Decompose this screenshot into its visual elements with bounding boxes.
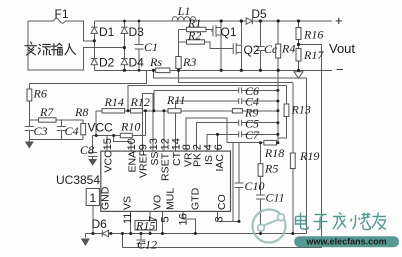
svg-text:R7: R7 bbox=[39, 105, 54, 119]
capacitor C7 plates bbox=[239, 131, 242, 137]
resistor R1 body bbox=[187, 27, 207, 31]
wire: C3 column bbox=[28, 120, 30, 139]
svg-text:16: 16 bbox=[178, 213, 190, 225]
junction dots top rail bbox=[123, 20, 126, 23]
wire: bottom minus rail bbox=[94, 69, 332, 71]
ground arrow under R17 bbox=[294, 72, 303, 78]
wire: pin8 line to node142 bbox=[186, 118, 261, 151]
op-amp U1 UC3854 IC body bbox=[101, 151, 231, 211]
svg-text:R3: R3 bbox=[182, 55, 196, 69]
svg-text:MUL: MUL bbox=[164, 188, 176, 210]
capacitor C11 plates bbox=[256, 195, 265, 199]
wire: pin1 column bbox=[92, 206, 94, 234]
diode D4 bbox=[121, 59, 128, 65]
node divider tap bbox=[297, 43, 300, 46]
resistor R9 body bbox=[232, 109, 242, 113]
svg-text:13: 13 bbox=[148, 138, 160, 150]
watermark hanzi 友 bbox=[372, 213, 386, 230]
diode D2 bbox=[91, 59, 98, 65]
wire: R6 branch from rail bbox=[29, 70, 146, 83]
wire: Cc column bbox=[259, 21, 261, 70]
svg-text:5: 5 bbox=[160, 216, 172, 222]
wire: Q2 drain-source column bbox=[240, 21, 242, 70]
pin numbers top row bbox=[102, 138, 226, 225]
svg-text:VREF: VREF bbox=[138, 150, 150, 178]
resistor R8 body bbox=[81, 124, 86, 135]
svg-text:Cc: Cc bbox=[264, 42, 278, 56]
svg-text:C10: C10 bbox=[245, 179, 265, 193]
wire: Q1 drain-source column bbox=[220, 21, 222, 70]
ground under C3 C4 bus bbox=[25, 142, 34, 149]
wire: C4 row to pin14 bbox=[176, 101, 278, 151]
wire: C10 column bbox=[238, 143, 240, 222]
wire: pin9 pin13 bracket bbox=[142, 94, 153, 151]
wire: ground left column bbox=[84, 234, 86, 238]
diode D3 bbox=[121, 27, 128, 33]
resistor R16 body bbox=[296, 28, 301, 40]
wire: pin10 jog bbox=[114, 136, 131, 152]
diode D6 bbox=[102, 230, 108, 236]
svg-text:+: + bbox=[335, 13, 343, 28]
wire: R1 row bbox=[179, 29, 214, 31]
resistor R7 body bbox=[39, 118, 57, 122]
wire: C7 row to pin4 bbox=[207, 134, 278, 151]
wire: R3 node column bbox=[178, 30, 180, 71]
wire: R8 column bbox=[82, 120, 84, 139]
wire: ground bus under C3 C4 bbox=[29, 138, 83, 140]
resistor R11 body bbox=[168, 109, 181, 113]
wire: divider tap to VS route bbox=[122, 45, 321, 248]
svg-text:PK: PK bbox=[192, 153, 204, 167]
watermark hanzi 烧 bbox=[351, 213, 372, 230]
wire: hang column x232.8 bbox=[232, 143, 234, 222]
wire: bridge left leg bbox=[93, 21, 95, 70]
wire: bottom line D6 R15 bbox=[85, 233, 306, 235]
wire: R3 line to R19 bbox=[179, 70, 293, 82]
transistor Q1 bbox=[211, 25, 221, 37]
svg-text:R19: R19 bbox=[299, 149, 319, 163]
wire: pin15 stub bbox=[106, 136, 108, 152]
wire: R14 R12 R11 R9 row bbox=[96, 110, 278, 112]
svg-text:VCC: VCC bbox=[103, 150, 115, 173]
resistor R14 body bbox=[102, 109, 125, 113]
resistor R10 body bbox=[120, 133, 132, 137]
svg-text:C7: C7 bbox=[245, 128, 260, 142]
svg-text:R18: R18 bbox=[264, 146, 284, 160]
svg-text:IAC: IAC bbox=[214, 154, 226, 172]
wire: VCC feed row with R10 bbox=[93, 135, 146, 137]
svg-text:D1: D1 bbox=[99, 25, 115, 39]
resistor R3 body bbox=[176, 57, 181, 69]
resistor R17 body bbox=[296, 49, 301, 62]
capacitor C4 plates bbox=[57, 127, 66, 131]
wire: R16 R17 divider column bbox=[298, 21, 300, 70]
watermark logo circle bbox=[253, 210, 286, 243]
ground bottom left bbox=[81, 239, 90, 247]
svg-text:10: 10 bbox=[126, 138, 138, 150]
wire: bridge right leg bbox=[123, 21, 125, 70]
watermark hanzi 子 bbox=[314, 215, 328, 230]
wire: AC input loop left/bottom bbox=[28, 21, 125, 70]
junction dots R9 row bbox=[127, 109, 130, 112]
svg-text:Vout: Vout bbox=[329, 41, 355, 56]
wire: riser R11 left to C6 row bbox=[153, 90, 155, 110]
junction dots VCC row bbox=[95, 134, 98, 137]
wire: C12 stub bbox=[140, 234, 142, 248]
wire: R5 C11 column bbox=[260, 143, 262, 234]
wire: rows bus x277.9 bbox=[277, 70, 279, 142]
wire: C4 column bbox=[60, 120, 62, 139]
resistor R18 body bbox=[264, 140, 277, 145]
svg-text:VO: VO bbox=[152, 195, 164, 210]
watermark url bar bbox=[294, 236, 399, 247]
svg-text:VS: VS bbox=[122, 196, 134, 210]
svg-text:7: 7 bbox=[147, 216, 159, 222]
capacitor C4b plates bbox=[239, 98, 242, 104]
wire: R13 column and elbow bbox=[278, 86, 287, 139]
wire: pin7 column bbox=[149, 211, 151, 233]
svg-text:GND: GND bbox=[100, 186, 112, 210]
svg-text:D4: D4 bbox=[129, 56, 145, 70]
svg-text:11: 11 bbox=[122, 213, 134, 224]
wire: pin6 column bbox=[217, 134, 219, 151]
junction dots bottom line bbox=[92, 232, 95, 235]
svg-text:R6: R6 bbox=[33, 87, 47, 101]
svg-text:Q1: Q1 bbox=[221, 25, 237, 39]
capacitor C6 plates bbox=[239, 87, 242, 93]
svg-text:1: 1 bbox=[90, 191, 97, 205]
svg-text:VCC: VCC bbox=[88, 121, 114, 135]
resistor Rs body bbox=[156, 68, 170, 73]
svg-text:D6: D6 bbox=[92, 217, 108, 231]
resistor R4 body bbox=[276, 44, 281, 58]
svg-text:C12: C12 bbox=[137, 238, 157, 252]
svg-text:−: − bbox=[336, 62, 344, 77]
wire: R10 riser to R12 row bbox=[145, 111, 147, 136]
wire: pin5 column bbox=[162, 211, 164, 233]
resistor R5 body bbox=[258, 164, 263, 177]
pin1 marker box bbox=[86, 189, 99, 206]
node C10 bottom bbox=[238, 220, 241, 223]
svg-text:D3: D3 bbox=[129, 25, 145, 39]
wire: current sense line from Rs left bbox=[153, 70, 306, 233]
wire: R18 link wires bbox=[261, 142, 278, 144]
wire: C8 column bbox=[92, 136, 94, 160]
wire: pin11 column bbox=[130, 211, 132, 233]
svg-text:C3: C3 bbox=[34, 124, 48, 138]
svg-text:F1: F1 bbox=[54, 7, 68, 21]
svg-text:R14: R14 bbox=[104, 95, 124, 109]
watermark hanzi 发 bbox=[333, 213, 346, 230]
svg-text:6: 6 bbox=[213, 144, 225, 150]
fuse F1 body bbox=[54, 18, 66, 23]
wire: R14 left riser bbox=[95, 111, 97, 136]
wire: fuse feed top bbox=[28, 21, 95, 41]
svg-text:CT: CT bbox=[171, 151, 183, 166]
ground under C8 bbox=[88, 159, 97, 166]
svg-text:R8: R8 bbox=[74, 105, 88, 119]
wire: C6 row bbox=[154, 89, 278, 91]
resistor R2 body bbox=[187, 40, 205, 44]
node R18 left bbox=[259, 141, 262, 144]
svg-text:www.elecfans.com: www.elecfans.com bbox=[305, 237, 386, 247]
resistor R13 body bbox=[284, 104, 289, 117]
capacitor C1 plates bbox=[135, 45, 144, 50]
capacitor C5 plates bbox=[239, 120, 242, 126]
svg-text:Q2: Q2 bbox=[244, 43, 260, 57]
watermark hanzi 电 bbox=[296, 213, 387, 230]
junction dots bottom rail bbox=[123, 69, 126, 72]
svg-text:C4: C4 bbox=[65, 124, 79, 138]
wire: pin3 route bbox=[218, 211, 240, 221]
capacitor C3 plates bbox=[25, 127, 34, 131]
label AC input hanzi 交流输入 bbox=[25, 42, 76, 55]
diode D5 bbox=[246, 18, 252, 24]
svg-text:C1: C1 bbox=[144, 40, 158, 54]
wire: pin16 route bbox=[183, 211, 195, 233]
svg-text:UC3854: UC3854 bbox=[56, 173, 100, 187]
svg-text:CO: CO bbox=[216, 194, 228, 210]
wire: R4 column bbox=[277, 21, 279, 70]
wire: R19 column bbox=[292, 83, 294, 234]
capacitor C8 plates bbox=[88, 153, 97, 157]
node AC taps bbox=[93, 39, 96, 42]
wire: C12 line left stub bbox=[121, 234, 123, 248]
node pin6 on C7 row bbox=[216, 133, 219, 136]
svg-text:R17: R17 bbox=[303, 48, 324, 62]
svg-text:D2: D2 bbox=[99, 56, 115, 70]
capacitor C12 plates bbox=[137, 240, 146, 244]
svg-text:Rs: Rs bbox=[149, 55, 162, 69]
svg-text:GTD: GTD bbox=[189, 187, 201, 210]
diode D1 bbox=[91, 27, 98, 33]
wire: R7 row bbox=[29, 119, 83, 121]
resistor R6 body bbox=[27, 89, 32, 101]
capacitor Cc plates bbox=[256, 47, 265, 51]
resistor R12 body bbox=[131, 109, 143, 113]
svg-text:12: 12 bbox=[159, 138, 171, 150]
svg-text:3: 3 bbox=[214, 216, 226, 222]
svg-text:R16: R16 bbox=[303, 28, 323, 42]
transistor Q2 bbox=[233, 43, 241, 55]
svg-text:15: 15 bbox=[102, 138, 114, 150]
wire: R6 column bbox=[28, 84, 30, 121]
svg-text:RSET: RSET bbox=[160, 152, 172, 181]
wire: top DC rail bbox=[94, 20, 332, 22]
svg-text:D5: D5 bbox=[251, 7, 267, 21]
svg-text:R11: R11 bbox=[166, 93, 185, 107]
svg-text:R4: R4 bbox=[281, 42, 295, 56]
wire: R2 row and Q2 gate route bbox=[179, 42, 234, 49]
wire: riser R14R12 junction to line85 bbox=[128, 86, 286, 111]
wire: C1 column bbox=[138, 21, 140, 70]
svg-text:R2: R2 bbox=[187, 29, 201, 43]
svg-text:R13: R13 bbox=[291, 103, 311, 117]
capacitor C10 plates bbox=[235, 183, 244, 188]
svg-text:R5: R5 bbox=[264, 162, 278, 176]
pin names bbox=[100, 150, 229, 210]
inductor L1 bbox=[172, 17, 196, 21]
svg-text:R10: R10 bbox=[120, 120, 140, 134]
wire: C5 row to pin2 bbox=[197, 123, 278, 151]
svg-text:R12: R12 bbox=[130, 95, 150, 109]
svg-text:C8: C8 bbox=[80, 143, 94, 157]
wire: pin12 column bbox=[163, 111, 165, 151]
resistor R15 body bbox=[135, 221, 157, 231]
svg-text:C11: C11 bbox=[266, 191, 285, 205]
junction dots rows bus bbox=[276, 89, 279, 92]
resistor R19 body bbox=[290, 153, 295, 169]
